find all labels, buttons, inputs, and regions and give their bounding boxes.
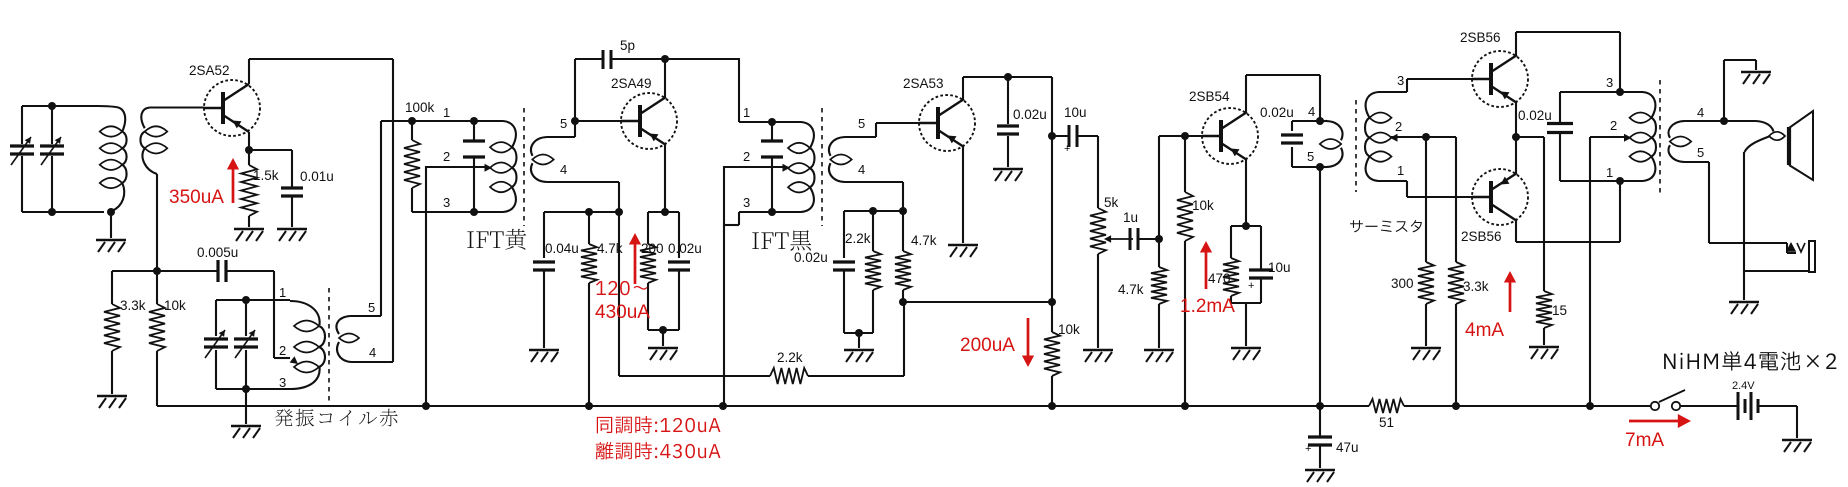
svg-text:2SB54: 2SB54 xyxy=(1189,89,1230,104)
svg-text:10k: 10k xyxy=(1192,198,1214,213)
svg-text:0.04u: 0.04u xyxy=(545,241,579,256)
svg-text:3.3k: 3.3k xyxy=(1463,279,1489,294)
svg-text:2.4V: 2.4V xyxy=(1732,380,1755,392)
svg-text:5: 5 xyxy=(1307,149,1314,164)
svg-text:2.2k: 2.2k xyxy=(777,350,803,365)
svg-text:0.005u: 0.005u xyxy=(197,245,238,260)
svg-text:1u: 1u xyxy=(1123,210,1138,225)
svg-text:4: 4 xyxy=(560,162,567,177)
svg-text:0.02u: 0.02u xyxy=(1260,105,1294,120)
svg-text:10u: 10u xyxy=(1064,105,1087,120)
svg-text:47u: 47u xyxy=(1336,440,1359,455)
svg-text:1: 1 xyxy=(1397,163,1404,178)
svg-text:2SA53: 2SA53 xyxy=(903,76,944,91)
svg-text:5: 5 xyxy=(858,116,865,131)
svg-text:2: 2 xyxy=(1395,119,1402,134)
svg-text:3: 3 xyxy=(1397,73,1404,88)
svg-text:1: 1 xyxy=(279,285,286,300)
svg-text:2: 2 xyxy=(743,149,750,164)
svg-text:4.7k: 4.7k xyxy=(597,241,623,256)
svg-text:51: 51 xyxy=(1379,415,1394,430)
svg-text:2: 2 xyxy=(279,343,286,358)
svg-text:10u: 10u xyxy=(1268,260,1291,275)
svg-text:3: 3 xyxy=(443,195,450,210)
svg-text:4: 4 xyxy=(1697,105,1704,120)
svg-text:1: 1 xyxy=(1606,165,1613,180)
svg-text:4.7k: 4.7k xyxy=(911,233,937,248)
svg-text:2SA52: 2SA52 xyxy=(189,63,230,78)
svg-text:5: 5 xyxy=(560,116,567,131)
svg-text:350uA: 350uA xyxy=(169,187,224,208)
svg-text:2SA49: 2SA49 xyxy=(611,76,652,91)
svg-text:1: 1 xyxy=(443,105,450,120)
svg-text:5: 5 xyxy=(1697,145,1704,160)
svg-text:3.3k: 3.3k xyxy=(120,298,146,313)
svg-text:2SB56: 2SB56 xyxy=(1461,229,1502,244)
svg-text:3: 3 xyxy=(1606,75,1613,90)
svg-text:1.2mA: 1.2mA xyxy=(1180,296,1235,317)
svg-text:10k: 10k xyxy=(164,298,186,313)
svg-text:0.02u: 0.02u xyxy=(794,250,828,265)
svg-text:430uA: 430uA xyxy=(595,302,650,323)
svg-text:+: + xyxy=(1064,143,1070,155)
svg-text:2: 2 xyxy=(1610,118,1617,133)
svg-text:200: 200 xyxy=(641,241,664,256)
svg-text:2SB56: 2SB56 xyxy=(1460,30,1501,45)
svg-text:200uA: 200uA xyxy=(960,335,1015,356)
svg-text:0.01u: 0.01u xyxy=(300,169,334,184)
svg-text:1.5k: 1.5k xyxy=(253,168,279,183)
svg-text:0.02u: 0.02u xyxy=(668,241,702,256)
svg-text:3: 3 xyxy=(279,375,286,390)
svg-text:100k: 100k xyxy=(405,100,435,115)
svg-text:2: 2 xyxy=(443,149,450,164)
svg-text:7mA: 7mA xyxy=(1625,430,1664,451)
svg-text:+: + xyxy=(1305,443,1311,455)
svg-text:15: 15 xyxy=(1552,303,1567,318)
svg-text:10k: 10k xyxy=(1058,322,1080,337)
svg-text:3: 3 xyxy=(743,195,750,210)
svg-text:470: 470 xyxy=(1208,271,1231,286)
svg-text:4.7k: 4.7k xyxy=(1118,282,1144,297)
svg-text:4: 4 xyxy=(369,345,376,360)
svg-text:4: 4 xyxy=(1308,104,1315,119)
svg-text:300: 300 xyxy=(1391,276,1414,291)
svg-text:5k: 5k xyxy=(1104,195,1119,210)
svg-text:1: 1 xyxy=(743,105,750,120)
svg-text:5: 5 xyxy=(368,300,375,315)
svg-text:4: 4 xyxy=(858,162,865,177)
svg-text:5p: 5p xyxy=(620,38,635,53)
svg-text:2.2k: 2.2k xyxy=(845,231,871,246)
svg-text:4mA: 4mA xyxy=(1465,320,1504,341)
svg-text:0.02u: 0.02u xyxy=(1518,108,1552,123)
svg-text:0.02u: 0.02u xyxy=(1013,107,1047,122)
svg-text:+: + xyxy=(1248,280,1254,292)
